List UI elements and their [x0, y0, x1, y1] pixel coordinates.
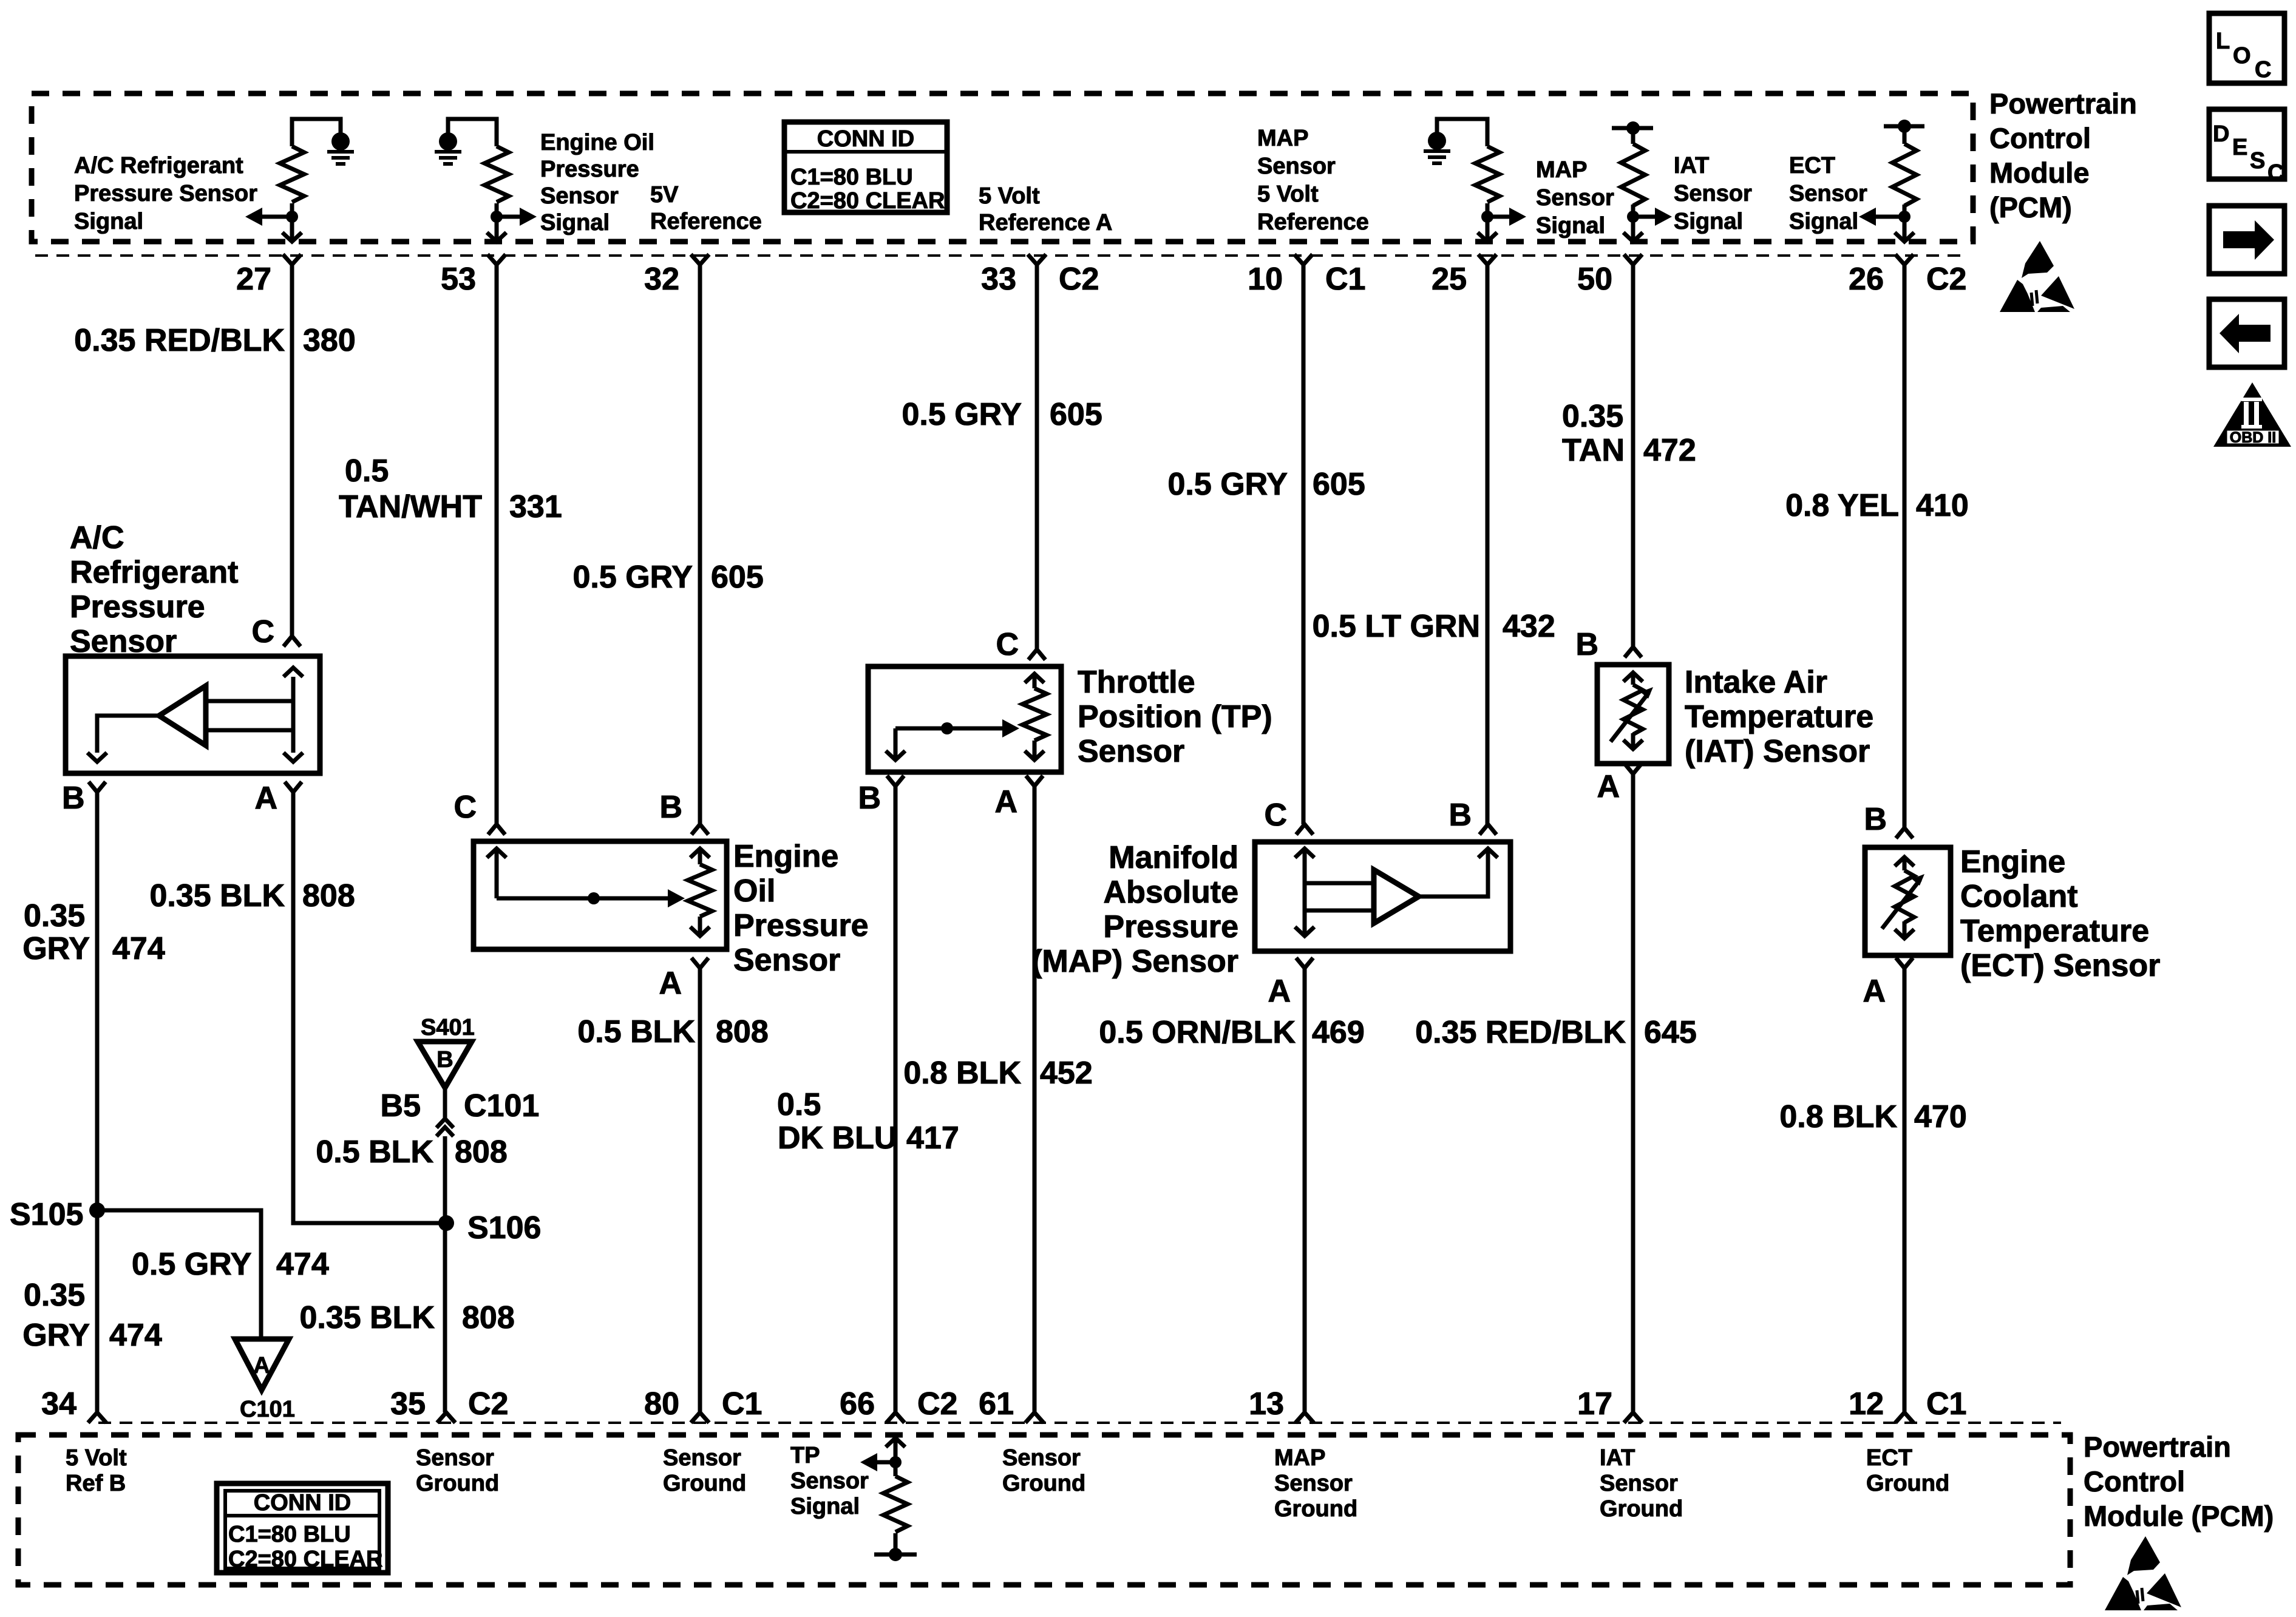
wire 432: pin 25 to MAP sensor B — [1486, 265, 1490, 824]
svg-text:34: 34 — [41, 1386, 76, 1422]
svg-text:470: 470 — [1914, 1099, 1967, 1134]
wire 808: oil pin A down to PCM pin 80 — [698, 968, 702, 1412]
pin B (ECT sensor) — [1896, 828, 1913, 838]
svg-text:Engine: Engine — [733, 839, 838, 874]
svg-text:5 Volt: 5 Volt — [1257, 181, 1319, 207]
junction S105 — [89, 1202, 105, 1218]
wire: resistor to pin 26 — [1903, 205, 1907, 240]
svg-text:C: C — [2267, 160, 2284, 186]
junction dot (A/C signal) — [286, 211, 298, 223]
svg-text:C: C — [453, 790, 477, 825]
svg-text:472: 472 — [1643, 433, 1696, 468]
svg-text:Powertrain: Powertrain — [1989, 87, 2137, 120]
pin 27 (PCM top connector) — [283, 254, 301, 265]
svg-text:80: 80 — [644, 1386, 679, 1422]
svg-text:C: C — [1264, 798, 1287, 833]
wire: Oil signal pull-up loop inside PCM — [448, 119, 497, 146]
junction dot (oil wiper) — [588, 892, 600, 904]
Throttle Position (TP) Sensor box — [868, 666, 1061, 772]
svg-text:Ground: Ground — [416, 1471, 499, 1496]
pin 17 (PCM bottom connector) — [1624, 1412, 1642, 1423]
resistor: MAP signal pull-up — [1475, 146, 1500, 202]
pin 50 (PCM top connector) — [1624, 254, 1642, 265]
arrowhead into pin 26 — [1895, 232, 1914, 242]
svg-text:474: 474 — [112, 931, 165, 966]
svg-text:474: 474 — [109, 1318, 162, 1353]
wire: MAP signal pull-up loop inside PCM — [1437, 119, 1487, 146]
svg-text:Pressure: Pressure — [540, 157, 639, 182]
svg-text:0.5 BLK: 0.5 BLK — [577, 1014, 695, 1049]
svg-text:Pressure: Pressure — [1103, 909, 1238, 944]
pin C (TP sensor) — [1028, 649, 1045, 660]
junction dot (ECT signal) — [1898, 211, 1911, 223]
resistor: A/C signal pull-up — [280, 146, 304, 202]
svg-text:C101: C101 — [464, 1088, 539, 1124]
wire 452: TP pin A down to PCM pin 61 — [1033, 786, 1037, 1414]
svg-text:0.5 GRY: 0.5 GRY — [573, 560, 693, 595]
pin 66 (PCM bottom connector) — [886, 1412, 905, 1423]
svg-text:C1=80 BLU: C1=80 BLU — [790, 164, 913, 190]
pin 26 (PCM top connector) — [1895, 254, 1914, 265]
wire: amp output to pin B — [1419, 850, 1488, 897]
svg-text:Signal: Signal — [1536, 213, 1605, 239]
wire 417: TP pin B down to PCM pin 66 — [894, 786, 898, 1412]
svg-text:Ground: Ground — [1600, 1496, 1683, 1522]
Engine Oil Pressure Sensor box — [474, 841, 727, 949]
pin B (MAP sensor) — [1479, 824, 1496, 835]
svg-text:32: 32 — [644, 262, 679, 297]
svg-text:12: 12 — [1849, 1386, 1884, 1422]
svg-text:452: 452 — [1040, 1056, 1093, 1091]
svg-text:Module: Module — [1989, 157, 2089, 189]
svg-text:Powertrain: Powertrain — [2084, 1431, 2231, 1463]
wire 605: pin 32 to oil sensor B — [698, 265, 702, 824]
pin A (oil sensor) — [691, 958, 708, 968]
pin 80 (PCM bottom connector) — [691, 1412, 709, 1423]
svg-text:C101: C101 — [240, 1397, 295, 1422]
svg-text:Module (PCM): Module (PCM) — [2084, 1500, 2274, 1532]
svg-text:Throttle: Throttle — [1078, 665, 1195, 700]
svg-text:Signal: Signal — [1789, 209, 1858, 234]
svg-text:Engine: Engine — [1960, 844, 2065, 880]
svg-text:D: D — [2213, 121, 2229, 147]
pin A (TP sensor) — [1026, 776, 1043, 786]
svg-text:Sensor: Sensor — [790, 1468, 869, 1494]
svg-text:Coolant: Coolant — [1960, 879, 2078, 914]
svg-text:Sensor: Sensor — [70, 624, 177, 659]
svg-text:CONN ID: CONN ID — [817, 126, 914, 152]
svg-text:Pressure: Pressure — [733, 908, 869, 943]
pin 13 (PCM bottom connector) — [1296, 1412, 1314, 1423]
wire: resistor to pin 25 — [1486, 203, 1490, 240]
svg-text:TAN: TAN — [1562, 433, 1625, 468]
svg-text:Sensor: Sensor — [540, 183, 619, 209]
svg-text:Signal: Signal — [1674, 209, 1743, 234]
svg-text:C: C — [996, 627, 1019, 662]
svg-text:605: 605 — [1313, 467, 1365, 502]
junction dot (IAT bias top) — [1626, 121, 1640, 135]
svg-text:13: 13 — [1249, 1386, 1284, 1422]
svg-text:0.5 GRY: 0.5 GRY — [1168, 467, 1288, 502]
arrowhead into pin 50 — [1623, 232, 1643, 242]
arrow: A/C Refrigerant Pressure Sensor Signal (points left) — [260, 215, 292, 219]
svg-text:432: 432 — [1503, 609, 1555, 644]
pin B (A/C sensor) — [89, 782, 106, 792]
svg-text:410: 410 — [1916, 488, 1969, 523]
svg-text:S105: S105 — [10, 1197, 83, 1232]
arrow: ECT Sensor Signal (points left) — [1873, 215, 1904, 219]
svg-text:5V: 5V — [650, 182, 679, 208]
svg-text:0.35 RED/BLK: 0.35 RED/BLK — [74, 323, 285, 358]
svg-text:Sensor: Sensor — [1257, 154, 1336, 179]
CONN ID table (top) — [784, 122, 947, 212]
svg-text:OBD II: OBD II — [2230, 429, 2276, 446]
wire: pin C through amp inputs to pin A — [1305, 850, 1374, 935]
wire: resistor to pin 53 — [495, 203, 499, 240]
svg-text:0.35 RED/BLK: 0.35 RED/BLK — [1415, 1015, 1626, 1050]
Manifold Absolute Pressure (MAP) Sensor box — [1255, 842, 1510, 951]
svg-text:Ground: Ground — [1002, 1471, 1085, 1496]
svg-text:Sensor: Sensor — [1600, 1471, 1678, 1496]
pin A (MAP sensor) — [1296, 958, 1313, 968]
svg-text:Sensor: Sensor — [1789, 181, 1867, 206]
junction dot (TP divider) — [889, 1456, 902, 1468]
svg-text:0.35: 0.35 — [1562, 399, 1623, 434]
arrow: Engine Oil Pressure Sensor Signal (points right) — [497, 215, 522, 219]
svg-text:C2: C2 — [1059, 262, 1099, 297]
junction dot (MAP signal) — [1481, 211, 1493, 223]
svg-text:Ground: Ground — [663, 1471, 746, 1496]
wire 470: ECT pin A down to PCM pin 12 — [1903, 968, 1907, 1412]
svg-text:Sensor: Sensor — [1674, 181, 1752, 206]
wire: IAT signal bias tee inside PCM — [1612, 128, 1653, 144]
svg-text:Control: Control — [1989, 122, 2091, 154]
svg-text:IAT: IAT — [1674, 153, 1709, 178]
svg-text:C2: C2 — [468, 1386, 508, 1422]
arrowhead into pin 53 — [487, 232, 506, 242]
svg-text:10: 10 — [1248, 262, 1283, 297]
svg-text:0.5 BLK: 0.5 BLK — [316, 1134, 433, 1170]
svg-text:0.35: 0.35 — [24, 898, 85, 934]
svg-text:17: 17 — [1577, 1386, 1612, 1422]
svg-text:MAP: MAP — [1536, 157, 1587, 183]
wire 605: pin 10 to MAP sensor C — [1302, 265, 1306, 824]
ground (PCM internal, MAP signal) — [1428, 132, 1446, 150]
svg-text:0.5: 0.5 — [345, 453, 389, 489]
wire: pin C feed through amp inputs to pin A — [206, 677, 293, 753]
svg-text:469: 469 — [1312, 1015, 1365, 1050]
svg-text:C2: C2 — [917, 1386, 957, 1422]
svg-text:DK BLU: DK BLU — [778, 1120, 897, 1156]
svg-text:Signal: Signal — [540, 210, 610, 236]
resistor: TP signal load — [883, 1476, 908, 1532]
wire: A/C signal pull-up loop inside PCM — [292, 119, 341, 146]
svg-text:(PCM): (PCM) — [1989, 191, 2072, 223]
svg-text:Pressure: Pressure — [70, 589, 205, 625]
arrow: MAP Sensor Signal (points right) — [1487, 215, 1512, 219]
svg-text:645: 645 — [1644, 1015, 1697, 1050]
svg-text:CONN ID: CONN ID — [254, 1490, 351, 1516]
svg-text:C1: C1 — [722, 1386, 762, 1422]
connector C101 pin A (triangle) — [235, 1339, 289, 1390]
thermistor (IAT sensor) — [1623, 673, 1643, 682]
svg-text:L: L — [2216, 29, 2230, 54]
svg-text:474: 474 — [276, 1247, 329, 1282]
svg-text:Reference: Reference — [650, 209, 762, 234]
svg-text:Oil: Oil — [733, 873, 775, 909]
pin C (A/C sensor) — [284, 636, 301, 646]
wire 410: pin 26 to ECT sensor B — [1903, 265, 1907, 828]
svg-text:IAT: IAT — [1600, 1445, 1635, 1471]
svg-text:417: 417 — [906, 1120, 959, 1156]
ESD-sensitive device symbol (bottom) — [2105, 1536, 2181, 1610]
svg-text:27: 27 — [236, 262, 271, 297]
amplifier (MAP sensor internal, points right) — [1374, 870, 1419, 923]
svg-text:605: 605 — [711, 560, 764, 595]
wire: amp output to pin B — [97, 716, 159, 753]
svg-text:808: 808 — [455, 1134, 508, 1170]
svg-text:C2=80 CLEAR: C2=80 CLEAR — [228, 1547, 382, 1572]
svg-text:A: A — [1597, 769, 1620, 804]
svg-text:(MAP) Sensor: (MAP) Sensor — [1031, 944, 1238, 979]
svg-text:Ground: Ground — [1866, 1471, 1949, 1496]
svg-text:MAP: MAP — [1257, 126, 1308, 151]
svg-text:(ECT) Sensor: (ECT) Sensor — [1960, 948, 2160, 983]
wire 472: pin 50 to IAT sensor B — [1631, 265, 1635, 647]
svg-text:Temperature: Temperature — [1685, 699, 1873, 734]
pin 53 (PCM top connector) — [487, 254, 506, 265]
resistor: IAT signal pull-up — [1621, 144, 1645, 206]
ground (PCM internal, A/C signal) — [331, 132, 350, 151]
svg-text:66: 66 — [840, 1386, 875, 1422]
svg-text:Sensor: Sensor — [1002, 1445, 1081, 1471]
svg-text:0.35 BLK: 0.35 BLK — [149, 878, 285, 914]
wire: S401 to connector C101 pin B5 — [443, 1088, 447, 1119]
arrow: IAT Sensor Signal (points right) — [1633, 215, 1657, 219]
svg-text:50: 50 — [1577, 262, 1612, 297]
svg-text:Ground: Ground — [1274, 1496, 1357, 1522]
svg-text:A: A — [659, 966, 682, 1001]
svg-text:0.5 GRY: 0.5 GRY — [132, 1247, 252, 1282]
svg-text:B: B — [62, 781, 85, 816]
svg-text:Sensor: Sensor — [1536, 185, 1614, 211]
svg-text:5 Volt: 5 Volt — [66, 1445, 127, 1471]
svg-text:Reference: Reference — [1257, 209, 1369, 235]
pin A (IAT sensor) — [1625, 764, 1642, 774]
Engine Coolant Temperature (ECT) Sensor box — [1865, 847, 1951, 955]
svg-text:A: A — [994, 784, 1017, 819]
svg-text:MAP: MAP — [1274, 1445, 1325, 1471]
svg-text:B: B — [1575, 627, 1598, 662]
svg-text:0.35 BLK: 0.35 BLK — [299, 1300, 435, 1335]
svg-text:0.8 YEL: 0.8 YEL — [1785, 488, 1899, 523]
PCM bottom connector face (thin dashed) — [98, 1422, 2061, 1424]
svg-text:Sensor: Sensor — [663, 1445, 741, 1471]
wire 474: A/C pin B down to PCM pin 34 — [95, 792, 100, 1412]
svg-text:C: C — [251, 614, 274, 649]
potentiometer resistor (oil sensor) — [690, 849, 710, 858]
svg-text:26: 26 — [1849, 262, 1884, 297]
svg-text:0.8 BLK: 0.8 BLK — [903, 1056, 1021, 1091]
junction dot (ECT bias top) — [1898, 120, 1911, 133]
svg-text:25: 25 — [1432, 262, 1467, 297]
pin A (ECT sensor) — [1896, 958, 1913, 968]
svg-text:Manifold: Manifold — [1109, 840, 1238, 875]
svg-text:C1: C1 — [1325, 262, 1365, 297]
svg-text:C: C — [2255, 57, 2271, 83]
svg-text:53: 53 — [441, 262, 476, 297]
svg-text:Reference A: Reference A — [979, 210, 1112, 236]
wire: resistor to internal ground bar — [874, 1533, 917, 1554]
svg-text:33: 33 — [981, 262, 1016, 297]
svg-text:0.5 LT GRN: 0.5 LT GRN — [1313, 609, 1480, 644]
svg-text:B: B — [1864, 802, 1887, 837]
svg-text:E: E — [2232, 135, 2247, 160]
inline connector C101 pin B5 (double chevron) — [436, 1119, 453, 1136]
svg-text:S401: S401 — [421, 1015, 475, 1040]
svg-text:A: A — [253, 1353, 270, 1378]
right-arrow sidebar icon — [2209, 206, 2284, 274]
svg-text:808: 808 — [462, 1300, 515, 1335]
junction dot (IAT signal) — [1627, 211, 1639, 223]
amplifier (A/C sensor internal, points left) — [159, 686, 206, 745]
wire: resistor to pin 50 — [1631, 205, 1635, 240]
svg-text:Pressure Sensor: Pressure Sensor — [74, 181, 257, 206]
svg-text:Sensor: Sensor — [416, 1445, 494, 1471]
svg-text:Signal: Signal — [74, 209, 143, 234]
pin B (IAT sensor) — [1625, 647, 1642, 657]
svg-text:35: 35 — [390, 1386, 426, 1422]
wire 469: MAP pin A down to PCM pin 13 — [1303, 968, 1307, 1412]
svg-text:0.5: 0.5 — [777, 1087, 821, 1122]
svg-text:ECT: ECT — [1866, 1445, 1912, 1471]
junction dot (oil signal) — [491, 211, 503, 223]
arrowhead into pin 27 — [282, 232, 302, 242]
wiper arm (TP sensor) — [894, 728, 898, 759]
wire 645: IAT pin A down to PCM pin 17 — [1631, 774, 1635, 1412]
svg-text:(IAT) Sensor: (IAT) Sensor — [1685, 734, 1870, 769]
svg-text:TP: TP — [790, 1443, 820, 1468]
svg-text:808: 808 — [716, 1014, 769, 1049]
svg-text:TAN/WHT: TAN/WHT — [339, 489, 482, 524]
svg-text:380: 380 — [303, 323, 356, 358]
svg-text:C2=80 CLEAR: C2=80 CLEAR — [790, 188, 945, 214]
svg-text:605: 605 — [1050, 397, 1102, 432]
wiper arm (oil sensor) — [495, 850, 499, 898]
junction dot (TP divider ground) — [889, 1548, 902, 1561]
svg-text:Ref B: Ref B — [66, 1471, 126, 1496]
svg-text:0.5 GRY: 0.5 GRY — [902, 397, 1022, 432]
svg-text:B: B — [659, 790, 682, 825]
wire 808: A/C pin A down to splice S106 — [293, 792, 447, 1223]
pin 34 (PCM bottom connector) — [88, 1412, 106, 1423]
svg-text:A: A — [1863, 974, 1886, 1009]
svg-text:B: B — [436, 1047, 453, 1073]
wire 605: pin 33 to TP sensor C — [1035, 265, 1039, 649]
pin A (A/C sensor) — [285, 782, 302, 792]
svg-text:0.8 BLK: 0.8 BLK — [1779, 1099, 1897, 1134]
svg-text:B: B — [858, 781, 881, 816]
thermistor (ECT sensor) — [1895, 857, 1914, 866]
wire 808: C101 through S106 to PCM pin 35 — [443, 1136, 447, 1412]
potentiometer resistor (TP sensor) — [1025, 674, 1044, 683]
svg-text:A: A — [254, 781, 277, 816]
svg-text:Engine Oil: Engine Oil — [540, 130, 654, 155]
pin C (MAP sensor) — [1296, 824, 1313, 835]
Intake Air Temperature (IAT) Sensor box — [1597, 665, 1669, 764]
svg-text:GRY: GRY — [22, 931, 90, 966]
svg-text:B: B — [1449, 798, 1472, 833]
ground splice S401 (triangle) — [418, 1042, 472, 1088]
svg-text:Position (TP): Position (TP) — [1078, 699, 1272, 734]
svg-text:61: 61 — [979, 1386, 1014, 1422]
svg-text:C2: C2 — [1926, 262, 1966, 297]
wire 331: pin 53 to oil sensor C — [495, 265, 499, 824]
svg-text:A/C Refrigerant: A/C Refrigerant — [74, 153, 243, 178]
wire: ECT signal bias tee inside PCM — [1884, 126, 1924, 144]
svg-text:C1: C1 — [1926, 1386, 1966, 1422]
PCM top connector face C1/C2 (thin dashed) — [35, 254, 1967, 257]
svg-text:808: 808 — [302, 878, 355, 914]
svg-text:Control: Control — [2084, 1465, 2185, 1497]
svg-text:Absolute: Absolute — [1104, 875, 1238, 910]
resistor: oil signal pull-up — [484, 146, 509, 202]
pin 35 (PCM bottom connector) — [437, 1412, 455, 1423]
PCM bottom box (dashed outline) — [18, 1435, 2070, 1585]
TP sensor signal divider inside PCM — [886, 1438, 905, 1447]
left-arrow sidebar icon — [2209, 299, 2284, 367]
ground (PCM internal, oil signal) — [439, 132, 457, 151]
pin B (TP sensor) — [887, 776, 904, 786]
svg-text:Intake Air: Intake Air — [1685, 665, 1827, 700]
arrowhead into pin 25 — [1478, 232, 1497, 242]
pin 10 (PCM top connector) — [1294, 254, 1313, 265]
svg-text:A/C: A/C — [70, 520, 124, 555]
svg-text:Sensor: Sensor — [733, 943, 840, 978]
pin 25 (PCM top connector) — [1478, 254, 1496, 265]
svg-text:0.35: 0.35 — [24, 1278, 85, 1313]
svg-text:ECT: ECT — [1789, 153, 1835, 178]
svg-text:Refrigerant: Refrigerant — [70, 555, 238, 590]
svg-text:S106: S106 — [467, 1210, 541, 1246]
svg-text:Signal: Signal — [790, 1494, 860, 1519]
pin 33 (PCM top connector) — [1028, 254, 1046, 265]
resistor: ECT signal pull-up — [1892, 144, 1917, 206]
svg-text:S: S — [2250, 148, 2265, 174]
wire: S105 branch to connector C101 pin A — [97, 1210, 261, 1339]
CONN ID table (bottom) — [217, 1483, 388, 1573]
pin B (oil sensor) — [691, 824, 708, 835]
svg-text:GRY: GRY — [22, 1318, 90, 1353]
OBD II sidebar icon — [2213, 382, 2291, 447]
svg-text:B5: B5 — [381, 1088, 421, 1124]
wire: resistor to pin 27 — [290, 203, 294, 240]
svg-text:Temperature: Temperature — [1960, 914, 2149, 949]
PCM top box (dashed outline) — [32, 93, 1973, 242]
pin 32 (PCM top connector) — [691, 254, 709, 265]
LOC sidebar icon — [2209, 13, 2284, 83]
junction S106 — [438, 1215, 454, 1231]
svg-text:C1=80 BLU: C1=80 BLU — [228, 1522, 351, 1547]
pin 12 (PCM bottom connector) — [1895, 1412, 1914, 1423]
svg-text:0.5 ORN/BLK: 0.5 ORN/BLK — [1099, 1015, 1296, 1050]
pin 61 (PCM bottom connector) — [1025, 1412, 1044, 1423]
svg-text:A: A — [1268, 974, 1291, 1009]
arrow: TP Sensor Signal (points left) — [875, 1460, 895, 1465]
svg-text:Sensor: Sensor — [1274, 1471, 1353, 1496]
junction dot (TP wiper) — [941, 722, 953, 734]
wire 380: pin 27 to A/C sensor C — [290, 265, 294, 636]
